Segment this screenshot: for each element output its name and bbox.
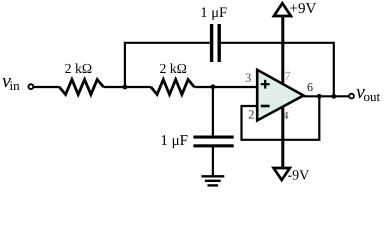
node B junction dot xyxy=(211,84,216,89)
wire node B down to C2 xyxy=(212,87,214,136)
svg-text:7: 7 xyxy=(284,69,290,83)
wire pin2 feedback loop xyxy=(242,96,320,140)
op-amp minus input marker xyxy=(261,105,270,108)
svg-text:in: in xyxy=(10,78,21,93)
capacitor C1 top 1uF xyxy=(210,24,213,62)
ground xyxy=(201,175,224,177)
op-amp U1 xyxy=(257,70,303,121)
svg-text:1 μF: 1 μF xyxy=(200,5,227,21)
wire C2 to ground xyxy=(212,147,214,176)
resistor R1 xyxy=(59,80,103,95)
wire node A up to top rail xyxy=(125,43,210,87)
capacitor C2 bottom 1uF xyxy=(193,136,233,139)
wire C1 to output drop xyxy=(221,43,334,97)
power wire +9V to pin 7 xyxy=(281,15,284,86)
svg-text:6: 6 xyxy=(307,80,313,94)
junction dot top rail xyxy=(331,94,336,99)
svg-text:2 kΩ: 2 kΩ xyxy=(65,61,93,76)
input terminal circle xyxy=(29,84,34,89)
wire input to R1 xyxy=(33,86,59,88)
svg-text:2 kΩ: 2 kΩ xyxy=(159,61,187,76)
wire op-amp output xyxy=(302,95,349,97)
supply -9V symbol xyxy=(274,168,290,180)
svg-text:3: 3 xyxy=(245,70,251,84)
svg-text:-9V: -9V xyxy=(288,168,310,183)
resistor R2 xyxy=(151,80,194,95)
svg-text:4: 4 xyxy=(283,110,289,122)
wire R2 to op-amp xyxy=(194,86,258,88)
svg-text:2: 2 xyxy=(248,108,254,122)
junction dot feedback xyxy=(317,94,322,99)
op-amp plus input marker xyxy=(261,83,270,85)
power wire pin 4 to -9V xyxy=(281,105,284,168)
node A junction dot xyxy=(123,85,128,90)
output terminal circle xyxy=(349,94,354,99)
supply +9V symbol xyxy=(274,3,291,16)
svg-text:+9V: +9V xyxy=(290,1,317,17)
svg-text:1 μF: 1 μF xyxy=(160,133,188,149)
svg-text:out: out xyxy=(364,89,381,104)
wire R1 to R2 xyxy=(104,86,152,88)
